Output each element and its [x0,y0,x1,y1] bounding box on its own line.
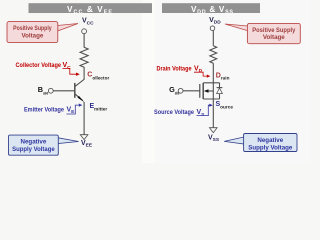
svg-text:Voltage: Voltage [21,32,43,39]
svg-text:Voltage: Voltage [263,34,285,41]
svg-text:Supply Voltage: Supply Voltage [248,145,293,152]
svg-text:Supply Voltage: Supply Voltage [12,146,55,153]
svg-text:Positive Supply: Positive Supply [13,25,52,32]
svg-text:Collector Voltage: Collector Voltage [16,63,62,69]
svg-text:Negative: Negative [257,137,283,144]
svg-text:Emitter Voltage: Emitter Voltage [24,107,65,113]
svg-text:Source Voltage: Source Voltage [154,110,195,116]
svg-text:Positive Supply: Positive Supply [252,27,296,34]
svg-text:Drain Voltage: Drain Voltage [157,66,193,72]
svg-text:Negative: Negative [21,139,47,146]
